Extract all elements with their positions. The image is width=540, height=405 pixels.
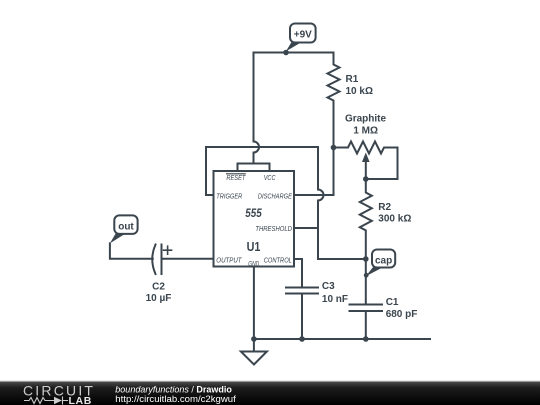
footer url text: [115, 394, 236, 405]
footer black bar: [0, 382, 540, 405]
cap node junction dot: [363, 256, 369, 262]
label Graphite value: [345, 113, 387, 136]
svg-text:cap: cap: [375, 256, 392, 267]
footer separator line: [0, 381, 540, 382]
svg-text:555: 555: [245, 208, 262, 220]
pin label TRIGGER: [216, 191, 242, 200]
wire OUTPUT to C2: [162, 258, 214, 260]
junction dot C1 at rail: [363, 336, 369, 342]
wire TRIGGER to horizontal net: [206, 147, 318, 195]
svg-text:680 pF: 680 pF: [386, 309, 418, 320]
label C1 value: [386, 297, 418, 320]
wire THRESHOLD stub: [294, 227, 318, 229]
svg-text:R2: R2: [378, 202, 391, 213]
footer logo CIRCUIT: [23, 383, 95, 399]
svg-text:C1: C1: [386, 297, 399, 308]
net flag +9V: [286, 24, 316, 52]
potentiometer Graphite body: [334, 142, 398, 180]
pin label RESET with overline: [226, 173, 246, 182]
pin label GND: [248, 261, 259, 268]
svg-text:TRIGGER: TRIGGER: [216, 191, 242, 200]
ground symbol: [241, 339, 267, 365]
wire DISCHARGE to junction A: [294, 148, 334, 196]
wire vertical net x=318 down to cap node (hop over discharge wire): [318, 147, 366, 259]
junction dot C3 at rail: [299, 336, 305, 342]
label R1 value: [346, 74, 373, 97]
footer logo resistor zigzag and diode: [24, 397, 68, 405]
pin label CONTROL: [264, 256, 292, 265]
capacitor C1: [350, 305, 383, 340]
svg-text:300 kΩ: 300 kΩ: [378, 214, 411, 225]
resistor R1: [328, 53, 340, 148]
svg-text:U1: U1: [247, 239, 261, 254]
C2 plus sign: [164, 246, 172, 254]
svg-text:OUTPUT: OUTPUT: [216, 256, 242, 265]
+9V node dot: [283, 50, 289, 56]
wire CONTROL to C3: [294, 259, 302, 288]
svg-text:C2: C2: [152, 282, 165, 293]
svg-text:out: out: [118, 222, 134, 233]
op-amp-box U1 555 IC body: [214, 171, 295, 267]
svg-text:10 nF: 10 nF: [322, 294, 348, 305]
svg-text:RESET: RESET: [226, 173, 246, 182]
svg-text:C3: C3: [322, 281, 335, 292]
net flag out: [110, 215, 138, 243]
label C2 value: [146, 282, 172, 304]
svg-text:CONTROL: CONTROL: [264, 256, 292, 265]
footer title text: [115, 384, 232, 394]
net flag cap: [364, 250, 395, 278]
part number 555: [245, 208, 262, 220]
wire GND pin down: [253, 267, 255, 340]
svg-text:R1: R1: [346, 74, 359, 85]
wire bottom ground rail: [254, 338, 430, 340]
svg-text:THRESHOLD: THRESHOLD: [255, 224, 292, 233]
svg-text:boundaryfunctions / Drawdio: boundaryfunctions / Drawdio: [115, 384, 232, 394]
svg-text:+9V: +9V: [294, 30, 312, 41]
wire top +9V rail: [254, 52, 334, 54]
wiper junction dot: [363, 176, 369, 182]
resistor R2: [360, 179, 372, 259]
label R2 value: [378, 202, 411, 225]
svg-text:Graphite: Graphite: [345, 113, 387, 124]
svg-text:GND: GND: [248, 261, 259, 268]
label C3 value: [322, 281, 348, 305]
svg-text:1 MΩ: 1 MΩ: [353, 125, 378, 136]
node A junction dot: [331, 145, 337, 151]
wire vertical from +9V rail to RESET/VCC tie (with hop over trigger wire): [254, 53, 260, 164]
pin label THRESHOLD: [255, 224, 292, 233]
svg-text:10 kΩ: 10 kΩ: [346, 86, 373, 97]
svg-text:DISCHARGE: DISCHARGE: [258, 191, 293, 200]
capacitor C3: [286, 288, 318, 340]
junction dot GND rail at gnd pin: [251, 336, 257, 342]
svg-text:VCC: VCC: [264, 173, 276, 182]
pin label DISCHARGE: [258, 191, 293, 200]
pin label OUTPUT: [216, 256, 242, 265]
wire RESET/VCC tie bracket: [238, 164, 270, 172]
capacitor C2 polarized: [110, 243, 162, 274]
svg-text:http://circuitlab.com/c2kgwuf: http://circuitlab.com/c2kgwuf: [115, 394, 236, 405]
svg-text:LAB: LAB: [69, 395, 92, 405]
svg-text:10 µF: 10 µF: [146, 293, 172, 304]
wire cap node to C1: [365, 259, 367, 305]
footer logo LAB: [69, 395, 92, 405]
potentiometer Graphite wiper arrow: [362, 153, 370, 180]
designator U1: [247, 239, 261, 254]
pin label VCC: [264, 173, 276, 182]
